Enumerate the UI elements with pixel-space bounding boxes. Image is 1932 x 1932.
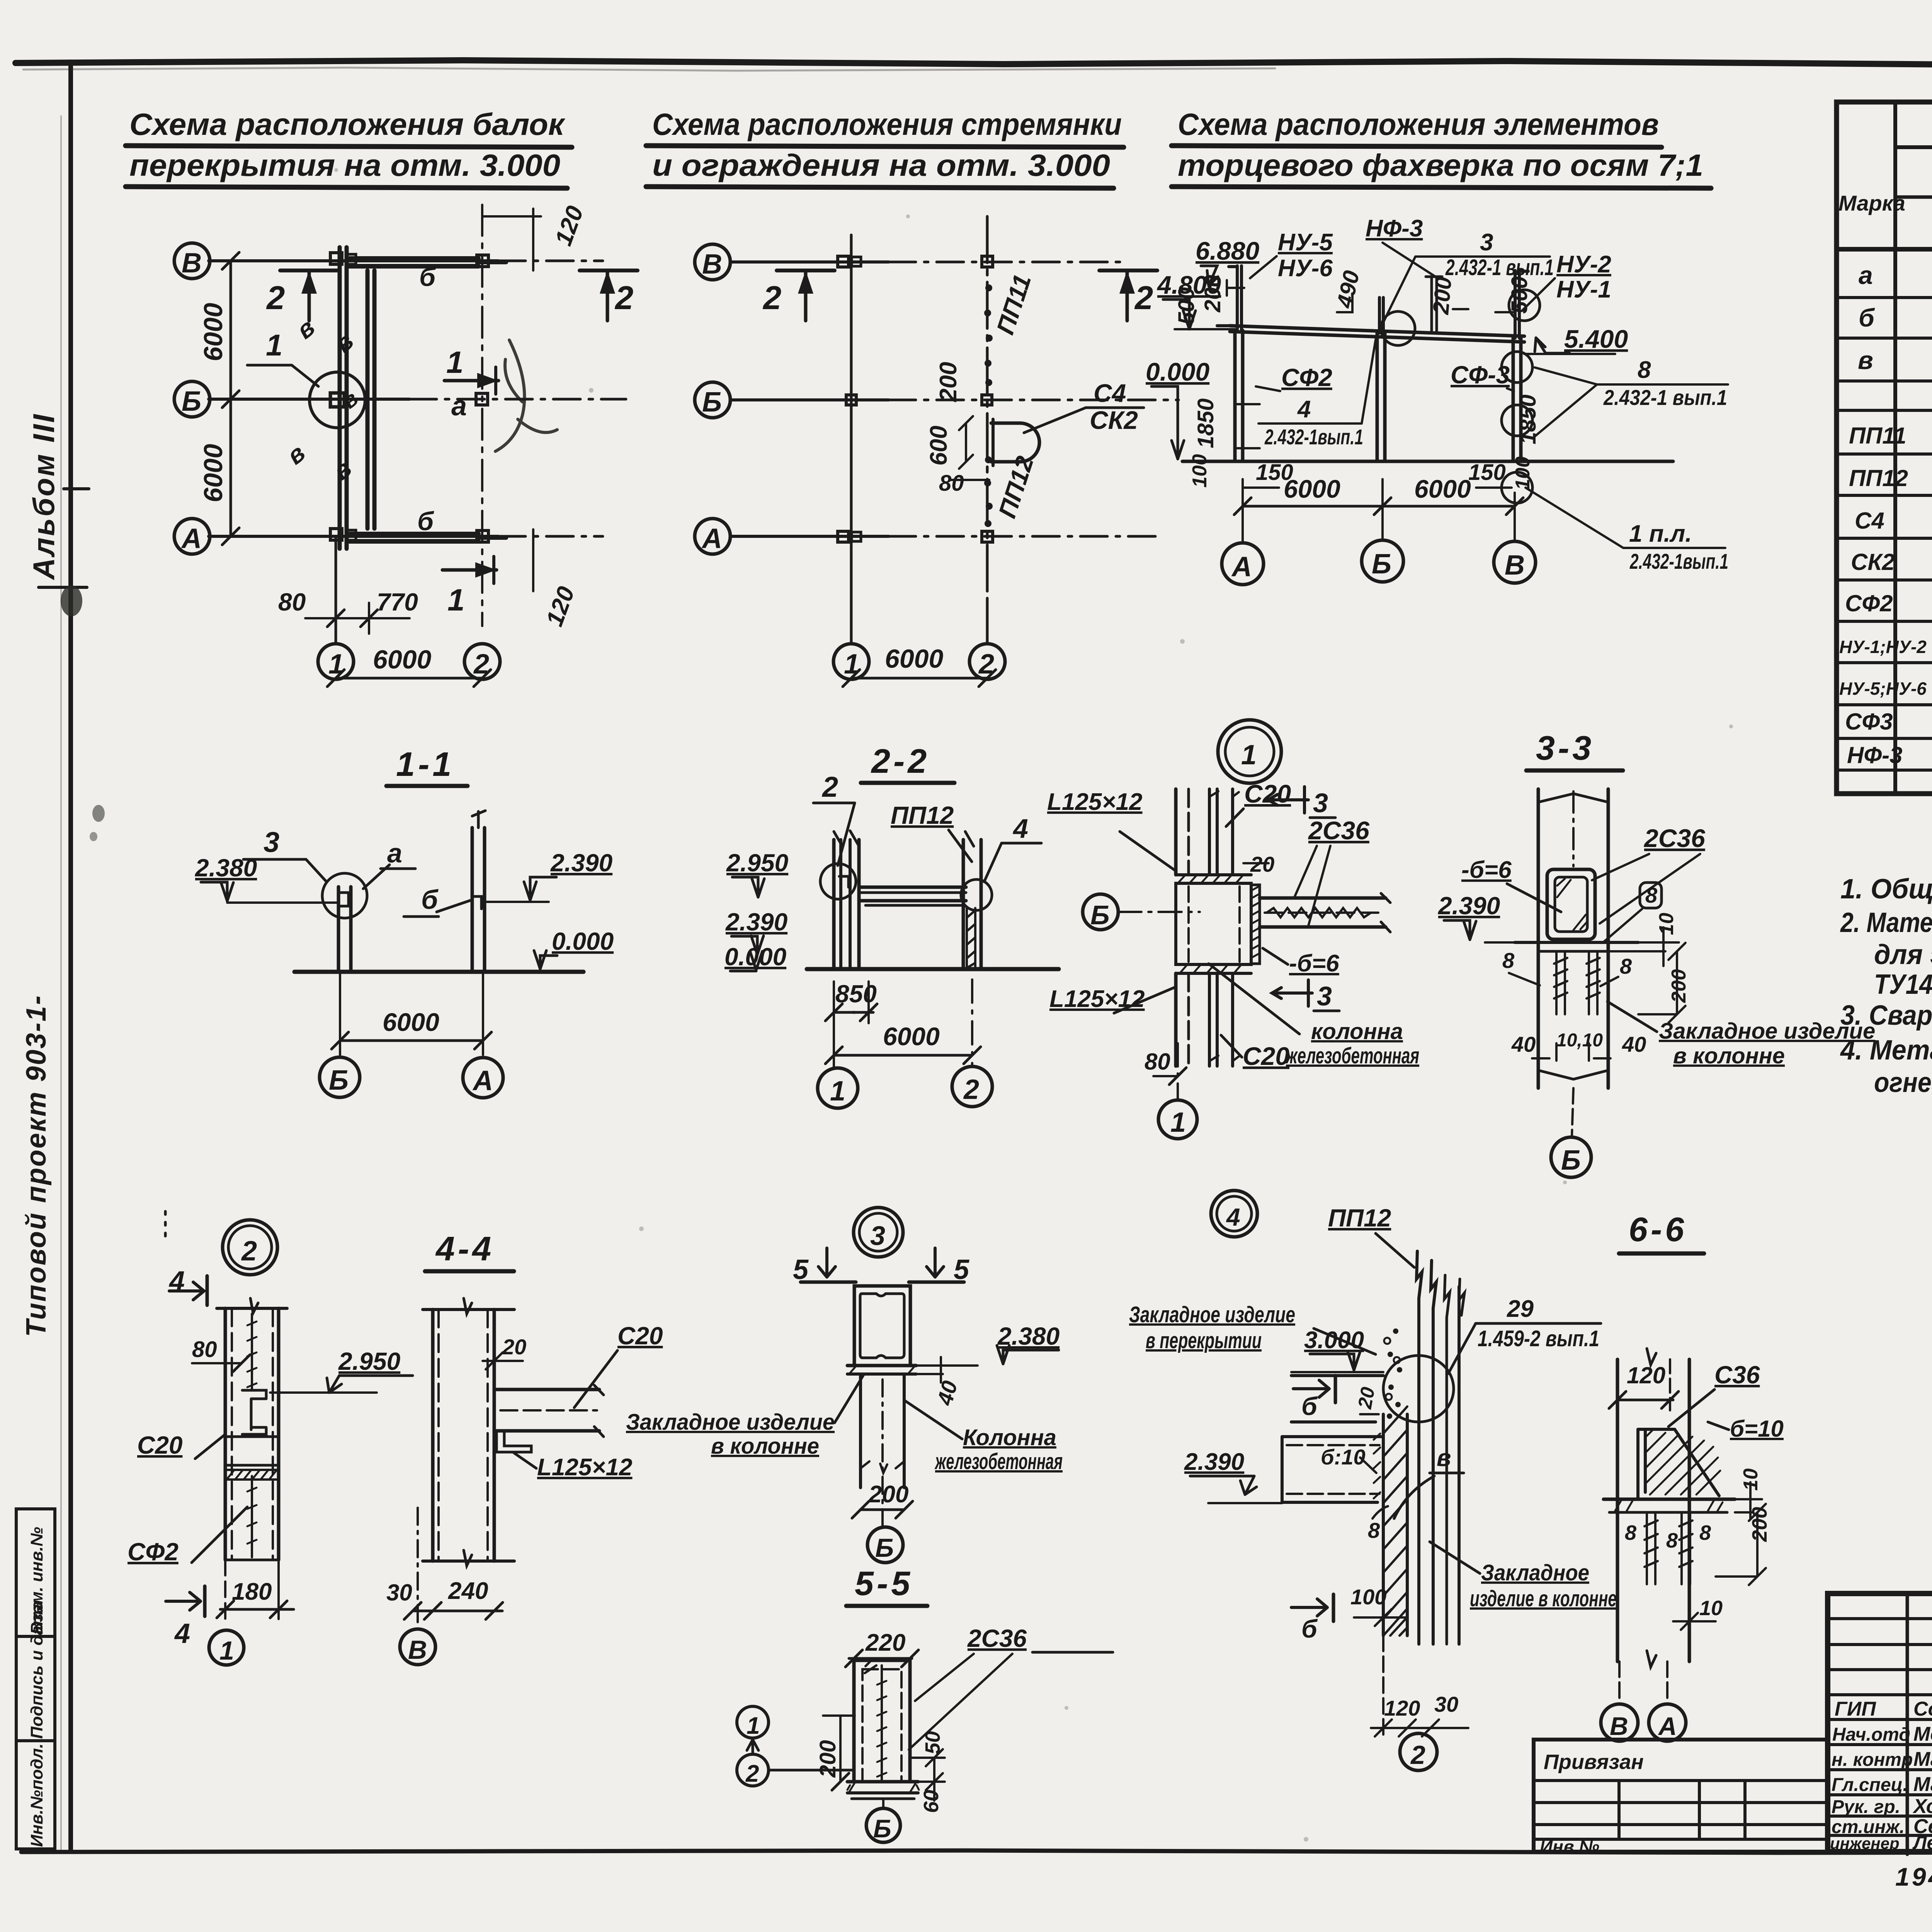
table outer box: [1837, 102, 1932, 794]
axis circle V: [174, 243, 210, 279]
axis circle A: [695, 519, 730, 554]
svg-text:Закладное изделие: Закладное изделие: [1129, 1302, 1295, 1327]
beam b along A: [350, 532, 478, 536]
svg-text:8: 8: [1625, 1521, 1636, 1544]
svg-text:огнезащитным покрытием ВПМ-5: огнезащитным покрытием ВПМ-5 по ГОСТ 251…: [1874, 1067, 1932, 1098]
section mark 1 right with a: [444, 379, 498, 383]
svg-text:2: 2: [614, 280, 633, 316]
axis line down to circle 1: [1177, 1043, 1179, 1099]
svg-text:Б: Б: [873, 1814, 891, 1843]
svg-text:С20: С20: [1244, 779, 1291, 808]
svg-text:Марков: Марков: [1913, 1748, 1932, 1770]
leader b: [437, 900, 471, 912]
axis 1 vertical: [850, 235, 853, 576]
beam 2C36 to right: [1260, 896, 1386, 900]
stamp rows: [1828, 1619, 1932, 1835]
left bottom stamp boxes: [16, 1509, 55, 1849]
stitch center line: [251, 1314, 253, 1389]
svg-text:200: 200: [935, 362, 962, 402]
G_SECTION33 : section 3-3: [1438, 729, 1875, 1177]
dim 150 left: [1243, 486, 1279, 489]
left border outer edge: [61, 116, 62, 1852]
svg-text:2.390: 2.390: [550, 849, 612, 877]
svg-text:Инв.№: Инв.№: [1540, 1837, 1599, 1857]
svg-text:L125×12: L125×12: [1049, 986, 1145, 1012]
svg-text:6000: 6000: [373, 645, 431, 674]
floor beam: [859, 886, 966, 889]
svg-text:120: 120: [1384, 1696, 1420, 1720]
top ledge left: [1217, 324, 1230, 327]
right column: [471, 828, 474, 972]
svg-text:в: в: [1858, 346, 1873, 374]
svg-text:30: 30: [386, 1580, 412, 1605]
svg-text:2.432-1вып.1: 2.432-1вып.1: [1264, 425, 1363, 449]
svg-text:н. контр: н. контр: [1832, 1750, 1913, 1770]
svg-text:500: 500: [1507, 276, 1532, 314]
svg-text:2.950: 2.950: [338, 1347, 400, 1375]
svg-text:1: 1: [219, 1636, 234, 1665]
svg-text:Привязан: Привязан: [1544, 1750, 1644, 1774]
b element on right column: [474, 896, 481, 909]
dim 150 right: [1476, 486, 1512, 489]
G_SECTION66 : section 6-6: [1601, 1210, 1784, 1741]
left border line: [68, 62, 73, 1852]
roof beam sloped: [1230, 326, 1524, 336]
column bottom: [225, 1559, 279, 1561]
svg-text:С20: С20: [617, 1322, 663, 1350]
svg-text:НУ-6: НУ-6: [1278, 255, 1333, 282]
leader a: [363, 865, 389, 889]
svg-text:3-3: 3-3: [1536, 729, 1594, 767]
svg-text:3: 3: [1480, 229, 1493, 256]
svg-text:2: 2: [963, 1074, 979, 1105]
svg-text:Гл.спец.: Гл.спец.: [1832, 1775, 1908, 1795]
weld circle top mid: [1381, 311, 1415, 345]
G_NODE2 : detail node 2: [128, 1211, 413, 1665]
node title circle 4: [1211, 1190, 1257, 1237]
axis line A: [209, 535, 498, 538]
svg-text:1: 1: [266, 328, 282, 362]
svg-text:2.380: 2.380: [997, 1322, 1060, 1350]
section mark 2 left: [777, 269, 835, 272]
axis circle V: [1494, 541, 1536, 583]
column top edge: [217, 1307, 287, 1310]
hatched wall strip: [1382, 1414, 1385, 1636]
svg-text:Подпись и дата: Подпись и дата: [27, 1601, 46, 1739]
axis circle B bottom: [866, 1808, 900, 1842]
G_LEFTMARGIN: [16, 413, 105, 1849]
svg-text:80: 80: [939, 471, 964, 496]
svg-text:0.000: 0.000: [552, 927, 614, 955]
svg-text:Схема расположения балок: Схема расположения балок: [129, 107, 566, 141]
svg-text:4: 4: [1297, 396, 1311, 423]
axis circle 2: [1400, 1733, 1437, 1770]
svg-text:200: 200: [1668, 969, 1690, 1003]
section mark 2 top-left: [280, 269, 338, 272]
svg-text:6.880: 6.880: [1196, 236, 1259, 265]
wall right line: [1458, 1287, 1461, 1644]
node title circle 2: [223, 1220, 277, 1275]
svg-text:L125×12: L125×12: [537, 1454, 633, 1481]
G_SCHEME3 : end-wall elevation: [1146, 215, 1728, 585]
node title circle 3: [854, 1207, 903, 1257]
svg-text:ТУ14-1-3023-80.: ТУ14-1-3023-80.: [1874, 969, 1932, 1000]
G_SCHEME2 : plan of ladder and railing: [695, 216, 1179, 687]
svg-text:6000: 6000: [883, 1022, 940, 1051]
svg-text:5-5: 5-5: [855, 1564, 913, 1602]
svg-text:5.400: 5.400: [1564, 325, 1628, 353]
svg-text:120: 120: [1627, 1362, 1665, 1388]
axis circle A: [463, 1058, 503, 1098]
nf-3 stub top: [1430, 277, 1433, 333]
svg-text:Нач.отд: Нач.отд: [1832, 1725, 1910, 1745]
svg-text:L125×12: L125×12: [1047, 789, 1143, 815]
C20 beam below: [1208, 973, 1211, 1066]
svg-text:150: 150: [1468, 460, 1506, 485]
svg-text:8: 8: [1620, 954, 1632, 978]
svg-text:Закладное изделие: Закладное изделие: [626, 1410, 835, 1435]
svg-text:8: 8: [1645, 883, 1658, 907]
column: [431, 1310, 435, 1561]
svg-text:600: 600: [925, 426, 952, 466]
svg-text:8: 8: [1368, 1518, 1380, 1543]
channel C36 with stiffener: [1638, 1429, 1675, 1499]
svg-text:2.380: 2.380: [195, 854, 257, 882]
svg-text:Б: Б: [702, 387, 722, 418]
row line r1: [1895, 145, 1932, 149]
corbel body: [1176, 883, 1251, 964]
ladder rails: [1417, 1251, 1422, 1644]
G_TABLE : vedomost elementov: [1837, 102, 1932, 794]
svg-text:1.459-2 вып.1: 1.459-2 вып.1: [1478, 1326, 1599, 1351]
svg-text:3: 3: [1317, 981, 1332, 1011]
svg-text:2.390: 2.390: [1184, 1449, 1244, 1475]
svg-text:НФ-3: НФ-3: [1847, 742, 1903, 768]
svg-text:3. Сварку вести электродами Э4: 3. Сварку вести электродами Э42 по ГОСТ …: [1840, 1000, 1932, 1031]
anchor bolts: [1554, 951, 1600, 1014]
svg-text:ПП12: ПП12: [1328, 1204, 1391, 1232]
svg-text:240: 240: [448, 1578, 488, 1604]
axis 2 dash-dot vertical: [481, 205, 483, 626]
svg-text:колонна: колонна: [1311, 1019, 1403, 1044]
svg-text:б: б: [419, 262, 436, 292]
svg-text:Холодова: Холодова: [1912, 1795, 1932, 1818]
svg-text:СФ2: СФ2: [1845, 590, 1893, 616]
section mark 2 top-right: [580, 269, 638, 272]
axis circle 2: [464, 644, 500, 679]
svg-text:В: В: [408, 1635, 427, 1665]
svg-text:2С36: 2С36: [1308, 816, 1370, 845]
axis line V: [730, 260, 889, 264]
axis 2 vertical: [986, 216, 989, 603]
svg-text:1: 1: [747, 1713, 760, 1739]
svg-text:2.432-1вып.1: 2.432-1вып.1: [1629, 549, 1728, 573]
svg-text:10,10: 10,10: [1556, 1030, 1603, 1051]
C20 beam above: [1208, 789, 1211, 874]
svg-text:Альбом III: Альбом III: [27, 413, 61, 581]
flange plate: [847, 1364, 916, 1367]
svg-text:НУ-5;НУ-6: НУ-5;НУ-6: [1839, 679, 1927, 699]
column top edge: [423, 1308, 514, 1311]
dots above: [164, 1211, 167, 1242]
svg-text:2-2: 2-2: [871, 742, 930, 780]
axis circle B: [320, 1057, 360, 1097]
svg-text:б: б: [421, 884, 439, 915]
pencil scribble: [495, 340, 557, 451]
svg-text:Морунов: Морунов: [1913, 1723, 1932, 1745]
svg-text:6000: 6000: [885, 644, 943, 673]
beam v vertical 1: [338, 247, 342, 549]
svg-text:и ограждения на отм. 3.000: и ограждения на отм. 3.000: [652, 148, 1110, 182]
corbel hatched top: [1176, 875, 1251, 883]
svg-text:НУ-1: НУ-1: [1556, 276, 1611, 303]
column B middle: [1376, 333, 1379, 461]
svg-text:2: 2: [762, 280, 781, 316]
box section 2C36: [1547, 869, 1595, 939]
svg-text:С4: С4: [1855, 508, 1884, 534]
data row lines: [1837, 298, 1932, 770]
svg-text:3.000: 3.000: [1304, 1327, 1364, 1354]
dim line 6000/6000 left: [230, 261, 232, 536]
node leader 1: [247, 365, 318, 386]
weld circles column V: [1502, 352, 1532, 383]
axis line Bm: [209, 398, 410, 401]
column squares on axis A: [330, 529, 342, 540]
svg-text:Левахов: Левахов: [1912, 1832, 1932, 1854]
axis circle V: [695, 244, 730, 280]
axis circle 1: [318, 644, 354, 679]
C channel inside: [242, 1390, 266, 1434]
column bottom part: [1174, 973, 1178, 1066]
svg-text:НФ-3: НФ-3: [1366, 215, 1423, 242]
svg-text:ПП12: ПП12: [1849, 465, 1908, 491]
svg-text:Типовой проект 903-1-: Типовой проект 903-1-: [21, 995, 52, 1337]
column below: [859, 1374, 862, 1488]
svg-text:торцевого фахверка по осям 7;1: торцевого фахверка по осям 7;1: [1178, 148, 1703, 182]
svg-text:изделие в колонне: изделие в колонне: [1470, 1586, 1617, 1611]
column A lower: [1233, 330, 1237, 461]
svg-text:1: 1: [1241, 740, 1257, 770]
svg-text:1: 1: [447, 583, 465, 617]
section 3 marker top: [1268, 787, 1308, 813]
svg-text:2.432-1 вып.1: 2.432-1 вып.1: [1445, 255, 1554, 280]
axis line B: [209, 259, 498, 262]
column outline: [1537, 789, 1540, 1088]
svg-text:2: 2: [821, 771, 838, 803]
squares on axis1: [838, 256, 849, 267]
corbel bottom hatch: [1176, 964, 1251, 973]
svg-text:2С36: 2С36: [967, 1624, 1027, 1652]
svg-text:ПП11: ПП11: [1849, 423, 1906, 449]
axis circle B: [695, 382, 730, 418]
dim 120 top right: [482, 215, 541, 218]
G_TITLEBLOCK: [1828, 1594, 1932, 1891]
svg-text:в перекрытии: в перекрытии: [1146, 1328, 1262, 1353]
big ellipse weld region: [1383, 1355, 1454, 1422]
dim 80 770 bottom: [335, 603, 337, 641]
svg-text:перекрытия на отм. 3.000: перекрытия на отм. 3.000: [129, 148, 560, 182]
svg-text:б: б: [417, 507, 434, 536]
slab at top: [1291, 1376, 1383, 1422]
stamp verticals: [1906, 1594, 1909, 1854]
svg-text:6000: 6000: [383, 1008, 439, 1036]
svg-text:1 п.л.: 1 п.л.: [1629, 520, 1692, 547]
svg-text:200: 200: [1200, 275, 1225, 313]
G_PRIVYAZAN block: [1534, 1740, 1828, 1857]
dim 120 bottom right: [532, 529, 534, 591]
column A upper NU-5: [1236, 266, 1239, 330]
column B top stub: [1378, 298, 1381, 333]
axis dashdot vertical: [1572, 791, 1575, 866]
svg-text:20: 20: [1354, 1385, 1379, 1411]
svg-text:2: 2: [745, 1760, 759, 1787]
svg-text:железобетонная: железобетонная: [1285, 1043, 1419, 1068]
svg-text:Б: Б: [329, 1065, 349, 1096]
row line r2: [1895, 196, 1932, 199]
svg-text:В: В: [182, 248, 202, 279]
node circle left: [820, 864, 856, 899]
level plate under box: [1515, 941, 1638, 944]
svg-text:Марков: Марков: [1913, 1773, 1932, 1796]
beam v vertical 2: [366, 270, 370, 529]
axis circle B bottom: [1551, 1137, 1591, 1177]
svg-text:6000: 6000: [1284, 474, 1340, 503]
svg-text:60: 60: [920, 1790, 943, 1813]
G_SCHEME1 : plan of beams: [174, 202, 638, 687]
leader circles 1 2: [737, 1706, 769, 1738]
svg-text:29: 29: [1507, 1296, 1534, 1322]
section mark 1 bottom: [442, 568, 497, 572]
ground line: [294, 970, 583, 974]
axis circle 1: [833, 644, 869, 679]
svg-text:СФ-3: СФ-3: [1451, 361, 1510, 389]
splice block: [225, 1435, 279, 1438]
beam b along V: [350, 256, 478, 261]
axis circle 2: [952, 1066, 992, 1107]
svg-text:1. Общие указания см. на листе: 1. Общие указания см. на листе КМ-1: [1840, 874, 1932, 905]
axis circle 2: [969, 644, 1005, 679]
G_SECTION22 : section 2-2: [724, 742, 1059, 1108]
svg-text:Закладное: Закладное: [1481, 1560, 1589, 1585]
svg-text:1850: 1850: [1515, 395, 1541, 444]
right column: [962, 840, 965, 969]
svg-text:100: 100: [1189, 454, 1211, 488]
svg-text:4. Металлические балки а, б,: 4. Металлические балки а, б, в покрыть в…: [1840, 1035, 1932, 1066]
svg-text:3: 3: [1313, 788, 1328, 818]
svg-text:-б=6: -б=6: [1461, 857, 1512, 883]
svg-text:СК2: СК2: [1090, 406, 1138, 434]
dim 6000 6000: [1243, 505, 1515, 508]
axis circles V A: [1601, 1704, 1638, 1741]
axis circle B: [867, 1527, 903, 1563]
svg-text:80: 80: [1145, 1049, 1170, 1075]
squares on axis2: [982, 256, 993, 267]
svg-text:а: а: [1859, 261, 1873, 289]
column bottom edge: [423, 1560, 514, 1563]
svg-text:Колонна: Колонна: [963, 1425, 1056, 1450]
svg-text:1: 1: [446, 345, 464, 379]
node title circle 1: [1218, 720, 1281, 783]
column squares on axis V: [330, 253, 342, 264]
axis line A: [730, 535, 889, 538]
svg-text:Соловьев: Соловьев: [1913, 1698, 1932, 1720]
svg-text:в колонне: в колонне: [711, 1434, 819, 1459]
box section 2C36: [854, 1286, 910, 1366]
svg-text:500: 500: [1174, 287, 1199, 325]
svg-text:НУ-2: НУ-2: [1556, 251, 1611, 278]
svg-text:Инв.№подл.: Инв.№подл.: [27, 1743, 46, 1847]
concrete dots: [1387, 1328, 1402, 1419]
dim 6000: [340, 1039, 483, 1042]
column body: [224, 1308, 227, 1560]
axis circle 1: [209, 1630, 244, 1665]
svg-text:2.432-1 вып.1: 2.432-1 вып.1: [1603, 385, 1727, 410]
svg-text:8: 8: [1666, 1529, 1678, 1552]
left column pair: [832, 840, 836, 969]
svg-text:19452-04: 19452-04: [1895, 1862, 1932, 1891]
svg-text:1850: 1850: [1193, 398, 1218, 448]
svg-text:инженер: инженер: [1830, 1834, 1900, 1852]
svg-text:Б: Б: [875, 1533, 894, 1563]
svg-text:б:10: б:10: [1321, 1445, 1366, 1469]
label 8 boxed: [1640, 883, 1662, 908]
svg-text:С36: С36: [1714, 1361, 1760, 1389]
svg-text:200: 200: [815, 1740, 840, 1778]
ground line: [1182, 460, 1673, 463]
svg-text:ГИП: ГИП: [1835, 1698, 1876, 1720]
svg-text:В: В: [1505, 550, 1525, 581]
box column section: [854, 1660, 910, 1782]
svg-text:б: б: [1301, 1614, 1318, 1643]
svg-text:В: В: [1610, 1712, 1628, 1740]
column square on axis B2: [476, 393, 488, 405]
svg-text:ПП12: ПП12: [891, 801, 954, 829]
svg-text:А: А: [181, 523, 202, 554]
outer box: [1828, 1594, 1932, 1852]
ground line: [807, 967, 1059, 971]
axis circle 1: [818, 1068, 858, 1108]
svg-text:Б: Б: [1372, 549, 1391, 580]
row line r3: [1837, 247, 1932, 252]
svg-text:СФ2: СФ2: [128, 1538, 179, 1566]
svg-text:2.950: 2.950: [726, 849, 788, 877]
svg-text:3: 3: [264, 826, 279, 858]
svg-text:100: 100: [1512, 456, 1534, 490]
svg-text:Рук. гр.: Рук. гр.: [1832, 1797, 1900, 1817]
svg-text:Б: Б: [1090, 900, 1110, 930]
svg-text:СК2: СК2: [1851, 549, 1895, 575]
svg-text:2: 2: [266, 280, 285, 316]
G_SECTION44 : section 4-4: [386, 1230, 663, 1665]
svg-text:для элемента а,б для остальных: для элемента а,б для остальных элементов…: [1874, 939, 1932, 970]
svg-text:20: 20: [502, 1335, 526, 1359]
section mark 2 right: [1099, 269, 1157, 272]
beam left: [1282, 1437, 1383, 1502]
node circle right: [961, 879, 992, 910]
svg-text:Схема расположения элементов: Схема расположения элементов: [1178, 107, 1659, 141]
column top part: [1174, 789, 1178, 875]
dim 6000 bottom: [851, 677, 987, 680]
svg-text:8: 8: [1638, 357, 1651, 383]
svg-text:А: А: [701, 523, 722, 554]
G_NOTES : numbered notes: [1840, 874, 1932, 1098]
svg-text:НУ-1;НУ-2: НУ-1;НУ-2: [1839, 637, 1927, 657]
svg-text:железобетонная: железобетонная: [934, 1449, 1063, 1474]
axis circle B: [174, 381, 210, 417]
svg-text:1: 1: [328, 649, 344, 680]
bolted interface plate: [1251, 885, 1260, 964]
svg-text:С20: С20: [1243, 1042, 1289, 1070]
